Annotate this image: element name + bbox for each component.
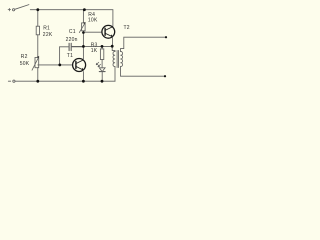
svg-text:10K: 10K [88, 18, 98, 24]
svg-text:50K: 50K [20, 61, 30, 67]
svg-text:1K: 1K [91, 48, 98, 54]
svg-text:T2: T2 [124, 25, 130, 31]
svg-text:R1: R1 [43, 25, 50, 31]
svg-text:220n: 220n [66, 37, 78, 43]
svg-text:R2: R2 [21, 54, 28, 60]
svg-text:22K: 22K [43, 32, 53, 38]
svg-text:T1: T1 [67, 53, 73, 59]
svg-text:C1: C1 [69, 29, 76, 35]
